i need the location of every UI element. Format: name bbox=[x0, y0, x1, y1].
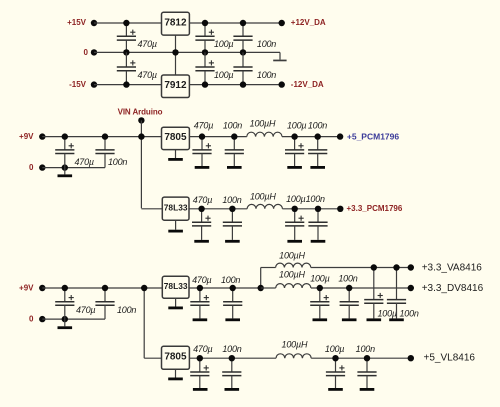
capacitor 100u (VA) bbox=[364, 268, 383, 322]
capacitor 100n (3.3 PCM) bbox=[308, 209, 327, 243]
value 100u bbox=[214, 39, 233, 49]
junction bbox=[231, 133, 237, 139]
junction bbox=[240, 20, 246, 26]
svg-text:100n: 100n bbox=[108, 157, 127, 167]
capacitor 100n (VL out) bbox=[357, 358, 376, 391]
net label 0 (2) bbox=[29, 315, 34, 324]
capacitor 100n (+5 PCM) bbox=[308, 137, 327, 169]
value 100n bbox=[257, 39, 276, 49]
value 100n (DV) bbox=[338, 273, 357, 283]
value 100n bbox=[222, 195, 241, 205]
svg-text:+9V: +9V bbox=[19, 283, 34, 292]
junction bbox=[393, 264, 399, 270]
value 470u bbox=[75, 157, 94, 167]
junction bbox=[198, 206, 204, 212]
junction bbox=[258, 285, 264, 291]
capacitor 100n (78L33 out) bbox=[223, 209, 242, 243]
junction bbox=[240, 81, 246, 87]
capacitor 470u (input -15V) bbox=[117, 52, 136, 84]
svg-text:+5_VL8416: +5_VL8416 bbox=[424, 353, 476, 364]
net label +9V (2) bbox=[19, 283, 34, 292]
net label +3.3_PCM1796 bbox=[347, 204, 403, 213]
svg-text:470µ: 470µ bbox=[138, 70, 157, 80]
wire +9V rail bbox=[42, 136, 161, 138]
net label +9V bbox=[19, 132, 34, 141]
terminal +9V (2) bbox=[39, 285, 45, 291]
junction bbox=[229, 206, 235, 212]
svg-text:78L33: 78L33 bbox=[164, 202, 188, 212]
svg-text:100n: 100n bbox=[306, 194, 325, 204]
junction bbox=[138, 133, 144, 139]
value 100uH (VA) bbox=[279, 250, 305, 260]
value 100n (VA) bbox=[400, 308, 419, 318]
wire to DV inductor bbox=[261, 287, 276, 289]
terminal +15V bbox=[91, 20, 97, 26]
value 470u bbox=[193, 344, 212, 354]
terminal +3.3_DV8416 bbox=[408, 285, 414, 291]
svg-text:470µ: 470µ bbox=[76, 305, 95, 315]
regulator 78L33 (8416) bbox=[162, 276, 189, 298]
wire 0 rail bbox=[42, 167, 105, 169]
junction bbox=[332, 355, 338, 361]
junction bbox=[123, 49, 129, 55]
svg-text:100µ: 100µ bbox=[310, 273, 329, 283]
value 100n bbox=[356, 344, 375, 354]
value 100n bbox=[308, 120, 327, 130]
svg-text:0: 0 bbox=[29, 315, 34, 324]
junction bbox=[371, 264, 377, 270]
net label +5_VL8416 bbox=[424, 353, 476, 364]
capacitor 100n (VL) bbox=[222, 358, 241, 391]
value 100n bbox=[306, 194, 325, 204]
wire -15V rail bbox=[94, 84, 162, 86]
junction bbox=[123, 20, 129, 26]
svg-text:100µ: 100µ bbox=[287, 120, 306, 130]
wire +5VL rail bbox=[189, 357, 276, 359]
terminal 0 bbox=[39, 164, 45, 170]
value 100n bbox=[222, 344, 241, 354]
terminal -12V_DA bbox=[279, 81, 285, 87]
value 100n bbox=[221, 275, 240, 285]
inductor 100uH (DV) bbox=[276, 284, 311, 288]
capacitor 100u (VL out) bbox=[326, 358, 345, 391]
regulator 7912 bbox=[162, 75, 190, 98]
junction bbox=[317, 285, 323, 291]
junction bbox=[292, 206, 298, 212]
net label -12V_DA bbox=[291, 80, 324, 89]
ground 78L33 (2) bbox=[168, 298, 183, 310]
svg-text:+9V: +9V bbox=[19, 132, 34, 141]
junction bbox=[229, 355, 235, 361]
value 100n bbox=[117, 305, 136, 315]
inductor 100uH (+5 PCM) bbox=[247, 132, 282, 136]
wire 0 rail 2 bbox=[42, 318, 105, 320]
junction bbox=[123, 81, 129, 87]
svg-text:+12V_DA: +12V_DA bbox=[291, 18, 326, 27]
net label +3.3_VA8416 bbox=[422, 263, 483, 274]
ground bbox=[58, 319, 73, 329]
wire DV rail bbox=[311, 287, 411, 289]
svg-text:VIN Arduino: VIN Arduino bbox=[118, 107, 163, 116]
wire +5 rail bbox=[189, 136, 246, 138]
ground 7805 (VL) bbox=[168, 369, 183, 380]
svg-text:470µ: 470µ bbox=[193, 344, 212, 354]
wire +12V rail bbox=[189, 22, 281, 24]
regulator 7812 bbox=[162, 12, 190, 35]
capacitor 100n (78L33 out 2) bbox=[223, 288, 242, 321]
svg-text:100µ: 100µ bbox=[214, 39, 233, 49]
capacitor 100n (VA) bbox=[387, 268, 406, 322]
svg-text:100µ: 100µ bbox=[378, 308, 397, 318]
junction bbox=[315, 206, 321, 212]
value 470u bbox=[76, 305, 95, 315]
net label 0 (top) bbox=[84, 48, 89, 57]
ground 7805 bbox=[168, 150, 183, 161]
wire +9V rail 2 bbox=[42, 287, 162, 289]
svg-text:470µ: 470µ bbox=[138, 39, 157, 49]
svg-text:470µ: 470µ bbox=[194, 120, 213, 130]
regulator 7805 (VL) bbox=[162, 346, 190, 369]
svg-text:0: 0 bbox=[29, 163, 34, 172]
value 470u bbox=[138, 39, 157, 49]
wire branch up bbox=[261, 268, 276, 289]
value 100u bbox=[286, 194, 305, 204]
junction bbox=[62, 285, 68, 291]
ground (0 rail) bbox=[273, 60, 286, 62]
svg-text:470µ: 470µ bbox=[75, 157, 94, 167]
svg-text:100n: 100n bbox=[308, 120, 327, 130]
svg-text:7912: 7912 bbox=[164, 80, 187, 91]
svg-text:100n: 100n bbox=[257, 70, 276, 80]
terminal 0 (2) bbox=[39, 316, 45, 322]
svg-text:100n: 100n bbox=[221, 275, 240, 285]
svg-text:100n: 100n bbox=[400, 308, 419, 318]
capacitor 470u (7805 out) bbox=[192, 137, 211, 169]
wire +5 rail b bbox=[282, 136, 340, 138]
wire ground stub bbox=[279, 52, 281, 59]
net label VIN Arduino bbox=[118, 107, 163, 116]
net label +15V bbox=[67, 18, 87, 27]
junction bbox=[346, 285, 352, 291]
value 100uH bbox=[250, 118, 276, 128]
svg-text:+15V: +15V bbox=[67, 18, 87, 27]
capacitor 470u (VL) bbox=[190, 358, 209, 391]
junction bbox=[62, 133, 68, 139]
wire 0 rail bbox=[94, 51, 280, 53]
value 100n bbox=[257, 70, 276, 80]
regulator 7805 (PCM) bbox=[162, 127, 190, 149]
svg-text:7805: 7805 bbox=[164, 132, 187, 143]
value 100u (DV) bbox=[310, 273, 329, 283]
junction bbox=[202, 81, 208, 87]
svg-text:100n: 100n bbox=[338, 273, 357, 283]
capacitor 100n (DV) bbox=[340, 288, 359, 321]
terminal +5_VL8416 bbox=[408, 355, 414, 361]
wire VA rail bbox=[311, 267, 411, 269]
svg-text:-12V_DA: -12V_DA bbox=[291, 80, 324, 89]
svg-text:+3.3_PCM1796: +3.3_PCM1796 bbox=[347, 204, 403, 213]
capacitor 100u (-12V) bbox=[195, 52, 214, 84]
terminal +3.3_VA8416 bbox=[408, 264, 414, 270]
capacitor 470u (9V input) bbox=[55, 137, 74, 168]
junction bbox=[202, 49, 208, 55]
value 100uH (VL) bbox=[282, 339, 308, 349]
capacitor 470u (input +15V) bbox=[117, 23, 136, 52]
svg-text:0: 0 bbox=[84, 48, 89, 57]
junction bbox=[230, 285, 236, 291]
ground bbox=[58, 168, 73, 178]
regulator 78L33 (PCM) bbox=[162, 197, 189, 220]
capacitor 470u (78L33 out) bbox=[192, 209, 211, 243]
net label +12V_DA bbox=[291, 18, 326, 27]
inductor 100uH (VL) bbox=[276, 354, 311, 358]
svg-text:100µH: 100µH bbox=[279, 269, 305, 279]
wire feed down to 7805 bbox=[144, 288, 161, 358]
svg-text:7812: 7812 bbox=[164, 17, 187, 28]
capacitor 100u (DV) bbox=[310, 288, 329, 321]
svg-text:100n: 100n bbox=[356, 344, 375, 354]
wire feed to 78L33 bbox=[141, 208, 162, 210]
svg-text:100µ: 100µ bbox=[325, 344, 344, 354]
terminal +5_PCM1796 bbox=[337, 133, 343, 139]
svg-text:100n: 100n bbox=[117, 305, 136, 315]
wire -12V rail bbox=[189, 84, 281, 86]
capacitor 100u (+12V) bbox=[195, 23, 214, 52]
terminal -15V bbox=[91, 81, 97, 87]
svg-text:100µH: 100µH bbox=[250, 191, 276, 201]
svg-text:100µ: 100µ bbox=[286, 194, 305, 204]
svg-text:100µH: 100µH bbox=[282, 339, 308, 349]
value 100u bbox=[287, 120, 306, 130]
svg-text:470µ: 470µ bbox=[192, 275, 211, 285]
wire +15V rail bbox=[94, 22, 162, 24]
value 100u (VA) bbox=[378, 308, 397, 318]
capacitor 100n (-12V) bbox=[233, 52, 252, 84]
svg-text:100n: 100n bbox=[222, 195, 241, 205]
wire +5VL rail b bbox=[311, 357, 411, 359]
value 100u bbox=[325, 344, 344, 354]
terminal +9V bbox=[39, 133, 45, 139]
junction bbox=[199, 133, 205, 139]
svg-text:78L33: 78L33 bbox=[164, 281, 188, 291]
value 100n bbox=[108, 157, 127, 167]
svg-text:+3.3_VA8416: +3.3_VA8416 bbox=[422, 263, 483, 274]
wire 3.3 rail 2 bbox=[189, 287, 261, 289]
junction bbox=[291, 133, 297, 139]
junction bbox=[197, 285, 203, 291]
wire 3.3 rail bbox=[189, 208, 247, 210]
svg-text:+3.3_DV8416: +3.3_DV8416 bbox=[422, 283, 484, 294]
terminal +3.3_PCM1796 bbox=[337, 206, 343, 212]
value 100n bbox=[223, 120, 242, 130]
terminal +12V_DA bbox=[279, 20, 285, 26]
junction bbox=[141, 285, 147, 291]
wire 7812 gnd to 0 bbox=[175, 35, 177, 75]
svg-text:100n: 100n bbox=[257, 39, 276, 49]
svg-text:100µH: 100µH bbox=[250, 118, 276, 128]
value 470u bbox=[194, 120, 213, 130]
svg-text:100µH: 100µH bbox=[279, 250, 305, 260]
wire 3.3 rail b bbox=[282, 208, 340, 210]
value 470u bbox=[193, 195, 212, 205]
junction bbox=[172, 49, 178, 55]
capacitor 470u (9V input 2) bbox=[55, 288, 74, 319]
svg-text:+5_PCM1796: +5_PCM1796 bbox=[347, 132, 399, 142]
svg-text:100µ: 100µ bbox=[214, 70, 233, 80]
inductor 100uH (VA) bbox=[276, 263, 311, 267]
value 100u bbox=[214, 70, 233, 80]
junction bbox=[62, 316, 68, 322]
junction bbox=[102, 133, 108, 139]
svg-text:100n: 100n bbox=[222, 344, 241, 354]
junction bbox=[315, 133, 321, 139]
net label 0 bbox=[29, 163, 34, 172]
junction bbox=[197, 355, 203, 361]
junction bbox=[202, 20, 208, 26]
terminal VIN Arduino bbox=[138, 117, 144, 123]
value 470u bbox=[192, 275, 211, 285]
junction bbox=[102, 285, 108, 291]
capacitor 100u (+5 PCM) bbox=[285, 137, 304, 169]
terminal 0 (top) bbox=[91, 49, 97, 55]
capacitor 100n (9V input) bbox=[95, 137, 114, 168]
inductor 100uH (3.3 PCM) bbox=[247, 204, 282, 208]
junction bbox=[240, 49, 246, 55]
svg-text:7805: 7805 bbox=[164, 352, 187, 363]
junction bbox=[62, 164, 68, 170]
value 470u bbox=[138, 70, 157, 80]
capacitor 470u (78L33 out 2) bbox=[190, 288, 209, 321]
ground 78L33 bbox=[168, 220, 183, 232]
net label -15V bbox=[69, 80, 87, 89]
value 100uH (DV) bbox=[279, 269, 305, 279]
value 100uH bbox=[250, 191, 276, 201]
svg-text:470µ: 470µ bbox=[193, 195, 212, 205]
svg-text:100n: 100n bbox=[223, 120, 242, 130]
capacitor 100u (3.3 PCM) bbox=[285, 209, 304, 243]
capacitor 100n (7805 out) bbox=[225, 137, 244, 169]
net label +5_PCM1796 bbox=[347, 132, 399, 142]
svg-text:-15V: -15V bbox=[69, 80, 87, 89]
junction bbox=[364, 355, 370, 361]
net label +3.3_DV8416 bbox=[422, 283, 484, 294]
wire VIN feed down bbox=[140, 120, 142, 208]
capacitor 100n (9V input 2) bbox=[95, 288, 114, 319]
capacitor 100n (+12V) bbox=[233, 23, 252, 52]
